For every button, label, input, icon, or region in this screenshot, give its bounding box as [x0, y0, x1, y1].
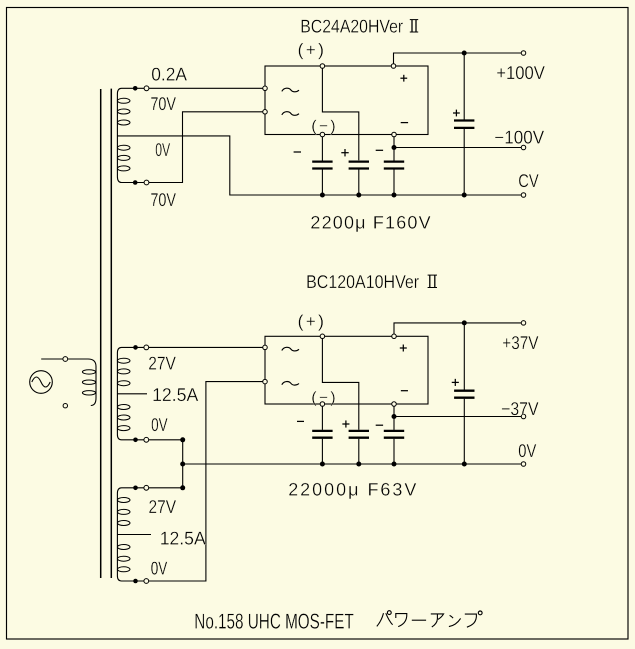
svg-text:−37V: −37V — [501, 398, 539, 419]
svg-text:0V: 0V — [518, 440, 537, 461]
svg-text:(+): (+) — [298, 39, 324, 59]
svg-text:(−): (−) — [311, 390, 335, 407]
svg-text:12.5A: 12.5A — [160, 528, 207, 549]
svg-text:−100V: −100V — [494, 126, 544, 147]
svg-text:70V: 70V — [150, 93, 176, 114]
svg-text:BC120A10HVer: BC120A10HVer — [306, 271, 419, 292]
svg-text:BC24A20HVer: BC24A20HVer — [300, 16, 403, 37]
svg-text:0V: 0V — [155, 139, 170, 160]
svg-text:2200μ F160V: 2200μ F160V — [310, 212, 430, 232]
svg-text:70V: 70V — [150, 189, 176, 210]
svg-text:12.5A: 12.5A — [152, 384, 199, 405]
svg-text:(+): (+) — [298, 311, 324, 331]
svg-text:0.2A: 0.2A — [151, 64, 187, 85]
svg-text:22000μ F63V: 22000μ F63V — [288, 480, 416, 500]
svg-text:0V: 0V — [151, 414, 168, 435]
svg-text:+100V: +100V — [496, 62, 545, 83]
svg-text:(−): (−) — [311, 118, 335, 135]
svg-text:CV: CV — [518, 170, 539, 191]
svg-text:0V: 0V — [151, 558, 168, 579]
svg-text:No.158 UHC MOS-FET: No.158 UHC MOS-FET — [194, 609, 353, 633]
svg-text:27V: 27V — [148, 353, 176, 374]
svg-text:+37V: +37V — [502, 332, 539, 353]
svg-text:27V: 27V — [149, 496, 177, 517]
